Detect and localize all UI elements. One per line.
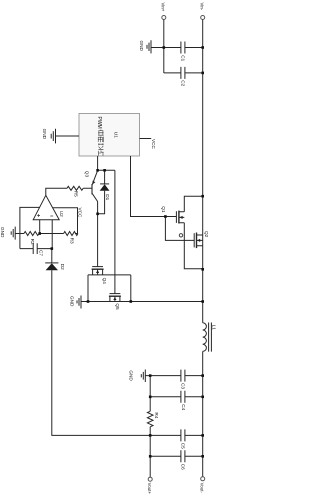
op-amp U1 PWM control chip	[79, 114, 140, 157]
capacitor C5	[181, 429, 203, 449]
svg-text:VCC: VCC	[78, 208, 83, 219]
svg-text:GND: GND	[42, 129, 47, 140]
wire switch node	[81, 301, 203, 303]
svg-text:C4: C4	[181, 404, 186, 410]
wire U2 left supply	[20, 207, 40, 248]
svg-text:Vout-: Vout-	[199, 483, 204, 494]
transistor Q2	[194, 231, 209, 248]
svg-text:Q4: Q4	[102, 278, 107, 285]
transistor Q1	[161, 196, 203, 269]
diode D1	[98, 170, 115, 214]
wire right main rail	[202, 20, 204, 323]
svg-text:Vin+: Vin+	[161, 3, 166, 12]
capacitor C1	[180, 42, 185, 62]
wire Q3 rail to Q4 gate	[97, 214, 99, 267]
wire left output rail	[52, 270, 181, 435]
svg-text:Q1: Q1	[161, 206, 166, 213]
terminal Vout-	[199, 477, 204, 494]
ground IC left	[42, 129, 56, 144]
svg-text:Vin-: Vin-	[200, 3, 205, 11]
svg-text:C5: C5	[181, 443, 186, 449]
svg-text:GND: GND	[70, 296, 75, 307]
wire D1 node to Q5 gate	[114, 170, 116, 293]
wire IC pin to gate drive	[131, 156, 177, 217]
capacitor C3	[181, 370, 186, 390]
wire gate branch to Q2	[165, 217, 194, 241]
wire C2 net	[164, 72, 203, 74]
terminal Vin-	[200, 3, 205, 20]
svg-text:U2: U2	[59, 211, 64, 217]
terminal Vout+	[147, 477, 152, 494]
wire output net 2	[150, 396, 203, 398]
svg-text:GND: GND	[0, 227, 5, 238]
ground Q4 source	[70, 296, 81, 309]
svg-text:Q2: Q2	[204, 231, 209, 238]
transistor Q5	[109, 294, 121, 310]
op-amp U2	[33, 195, 64, 219]
glyph 片	[99, 150, 104, 155]
svg-text:VCC: VCC	[151, 139, 156, 150]
svg-text:Q5: Q5	[115, 303, 120, 310]
node VCC stub	[140, 139, 156, 150]
svg-text:D2: D2	[60, 264, 65, 270]
svg-text:PWM: PWM	[96, 117, 102, 129]
svg-text:R4: R4	[154, 412, 159, 418]
capacitor C7	[20, 243, 52, 256]
svg-text:R3: R3	[70, 238, 75, 244]
svg-text:GND: GND	[129, 370, 134, 381]
resistor R5	[46, 186, 92, 197]
svg-text:D1: D1	[105, 194, 110, 200]
resistor R4	[147, 411, 159, 435]
terminal Vin+	[161, 3, 166, 20]
wire sense column	[149, 376, 151, 412]
wire output net 1	[145, 375, 202, 377]
glyph 控	[98, 130, 103, 136]
svg-text:Vout+: Vout+	[147, 483, 152, 495]
resistor R3	[64, 232, 78, 244]
transistor Q4	[88, 267, 131, 302]
wire IC pin to Q3 rail	[97, 156, 99, 170]
capacitor C6	[181, 450, 186, 470]
svg-text:C2: C2	[180, 80, 185, 86]
glyph 芯	[98, 143, 103, 149]
ground op-amp	[0, 227, 15, 240]
node crossing hop	[179, 234, 182, 237]
svg-text:C1: C1	[180, 55, 185, 61]
glyph 制	[98, 137, 103, 143]
svg-text:C3: C3	[181, 383, 186, 389]
wire left input rail	[163, 20, 165, 73]
capacitor C4	[181, 391, 186, 411]
wire to output terminal	[149, 456, 151, 477]
wire U2 right supply VCC	[53, 208, 83, 234]
ground top	[139, 40, 151, 53]
wire output net 4	[150, 435, 203, 456]
ground output	[129, 370, 146, 383]
wire R2 to R3	[39, 233, 64, 235]
svg-text:C6: C6	[181, 464, 186, 470]
diode D2	[45, 249, 65, 271]
svg-text:L1: L1	[212, 325, 217, 331]
svg-text:R5: R5	[74, 191, 79, 197]
wire right main rail lower	[202, 351, 204, 476]
wire C1 net	[151, 47, 203, 49]
resistor R2	[15, 232, 39, 245]
capacitor C2	[180, 67, 185, 87]
svg-text:Q3: Q3	[85, 171, 90, 178]
wire IC gnd	[56, 135, 80, 137]
inductor L1	[203, 323, 217, 352]
wire U2 input pins	[39, 220, 41, 234]
transistor Q3	[85, 171, 98, 214]
svg-text:C7: C7	[39, 250, 44, 256]
svg-text:GND: GND	[139, 41, 144, 52]
